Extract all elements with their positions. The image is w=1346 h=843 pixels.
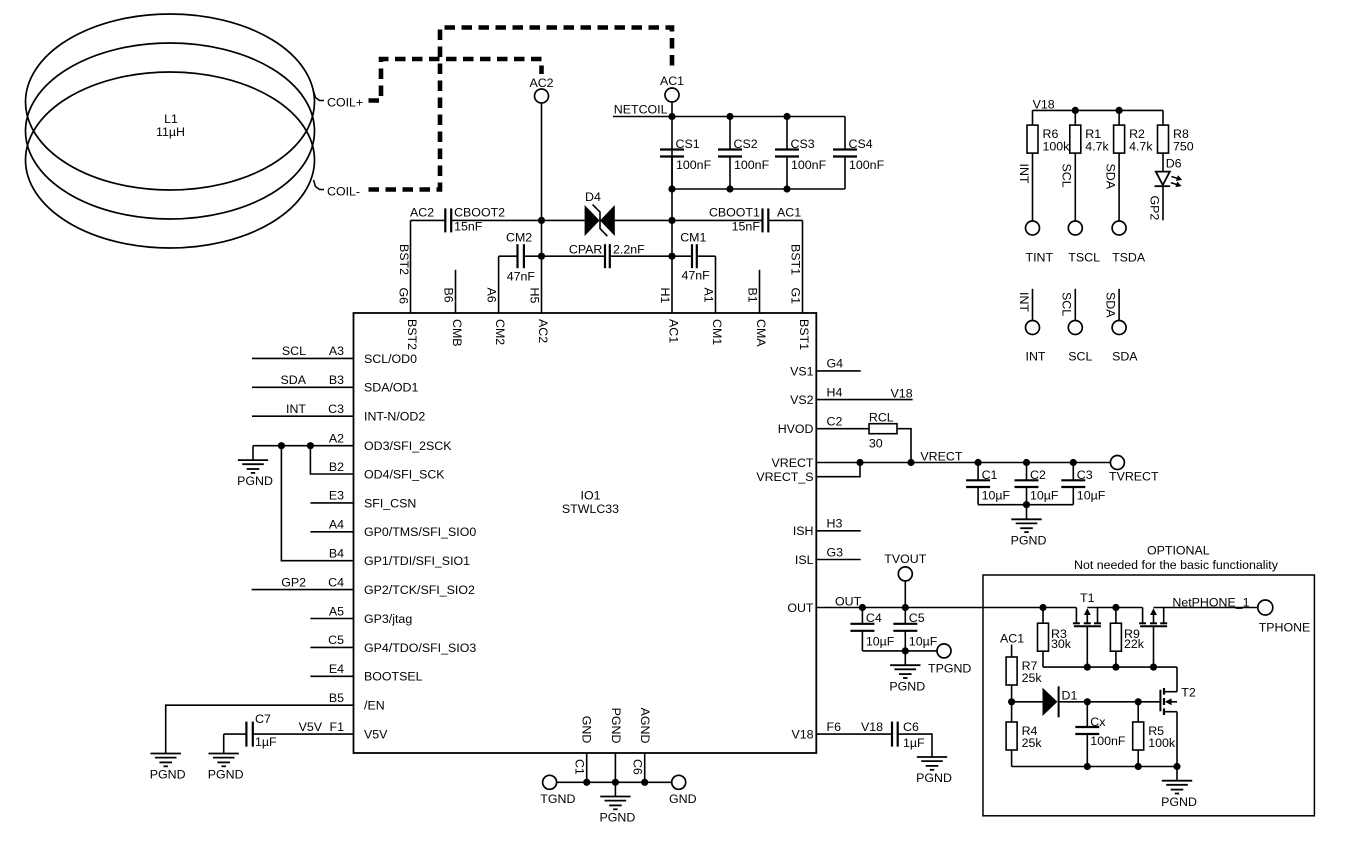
- svg-text:A3: A3: [329, 344, 344, 358]
- svg-text:A6: A6: [485, 288, 499, 303]
- svg-text:PGND: PGND: [916, 771, 952, 785]
- svg-text:PGND: PGND: [237, 474, 273, 488]
- resistor R1: [1060, 110, 1110, 221]
- wire C4-C5 rail to TPGND: [862, 647, 937, 654]
- svg-text:30: 30: [869, 436, 883, 450]
- svg-text:INT: INT: [1026, 350, 1046, 364]
- capacitor CBOOT1: [668, 205, 802, 233]
- svg-text:100nF: 100nF: [734, 158, 770, 172]
- svg-text:GND: GND: [580, 716, 594, 744]
- svg-text:SCL: SCL: [1060, 164, 1074, 188]
- test point SDA (lower group): [1103, 289, 1138, 364]
- pin A4 GP0/TMS/SFI_SIO0: [310, 518, 476, 540]
- test point TINT: [1026, 221, 1054, 264]
- test point AC2: [525, 74, 558, 103]
- test point TVRECT: [1109, 456, 1159, 484]
- svg-text:INT: INT: [1017, 164, 1031, 184]
- svg-text:TSCL: TSCL: [1068, 250, 1100, 264]
- svg-text:C6: C6: [903, 720, 919, 734]
- svg-text:BST1: BST1: [789, 244, 803, 275]
- svg-text:C5: C5: [909, 611, 925, 625]
- svg-text:100nF: 100nF: [791, 158, 827, 172]
- svg-text:C7: C7: [255, 712, 271, 726]
- svg-text:GP4/TDO/SFI_SIO3: GP4/TDO/SFI_SIO3: [364, 641, 476, 655]
- svg-text:V18: V18: [791, 728, 813, 742]
- resistor R3: [1038, 604, 1072, 667]
- pin BST1 stub: [789, 220, 803, 313]
- svg-text:NetPHONE_1: NetPHONE_1: [1172, 595, 1249, 609]
- resistor RCL: [778, 411, 915, 467]
- svg-text:OUT: OUT: [835, 594, 862, 608]
- svg-text:4.7k: 4.7k: [1129, 139, 1153, 153]
- svg-text:V18: V18: [891, 386, 913, 400]
- wire COIL- to AC1 (dashed): [369, 28, 673, 190]
- svg-text:AC1: AC1: [667, 319, 681, 343]
- pin VRECT: [772, 450, 1111, 470]
- pin A2 OD3/SFI_2SCK: [253, 432, 452, 454]
- test point SCL (lower group): [1060, 289, 1093, 364]
- svg-text:HVOD: HVOD: [778, 422, 814, 436]
- svg-text:CM1: CM1: [680, 230, 706, 244]
- svg-text:H3: H3: [827, 517, 843, 531]
- net NetPHONE_1 wire: [1154, 595, 1258, 609]
- svg-text:T2: T2: [1181, 686, 1196, 700]
- optional block box: [983, 544, 1314, 816]
- svg-text:GP3/jtag: GP3/jtag: [364, 612, 412, 626]
- svg-text:CS3: CS3: [791, 137, 815, 151]
- svg-text:SDA/OD1: SDA/OD1: [364, 381, 419, 395]
- ground PGND bottom: [599, 782, 635, 824]
- svg-text:D1: D1: [1062, 689, 1078, 703]
- pin C3 INT-N/OD2: [252, 402, 425, 424]
- pin GND (C1): [573, 716, 594, 786]
- capacitor CS4: [833, 117, 885, 190]
- pin C4 GP2/TCK/SFI_SIO2: [252, 575, 475, 597]
- pin E3 SFI_CSN: [310, 489, 416, 511]
- svg-text:1µF: 1µF: [255, 735, 277, 749]
- svg-text:TSDA: TSDA: [1112, 250, 1146, 264]
- LED D6: [1147, 157, 1182, 221]
- svg-text:A1: A1: [702, 288, 716, 303]
- svg-text:PGND: PGND: [1011, 533, 1047, 547]
- pin B2 OD4/SFI_SCK: [329, 460, 445, 482]
- svg-text:Not needed for the basic funct: Not needed for the basic functionality: [1074, 558, 1279, 572]
- svg-text:BST2: BST2: [397, 244, 411, 275]
- svg-text:AC2: AC2: [410, 205, 434, 219]
- wire B4 tie to A2 net: [278, 442, 354, 561]
- pin CMA stub: [746, 270, 760, 313]
- svg-text:H1: H1: [658, 288, 672, 304]
- capacitor CS1: [660, 137, 712, 189]
- op-amp IC IO1 STWLC33 body: [354, 313, 817, 753]
- svg-text:OPTIONAL: OPTIONAL: [1147, 544, 1210, 558]
- svg-text:SDA: SDA: [1103, 292, 1117, 318]
- svg-text:100nF: 100nF: [849, 158, 885, 172]
- svg-text:100k: 100k: [1043, 139, 1071, 153]
- svg-text:CM2: CM2: [506, 230, 532, 244]
- capacitor CS2: [718, 117, 770, 190]
- capacitor CBOOT2: [410, 205, 545, 233]
- svg-text:AC2: AC2: [529, 76, 553, 90]
- pin F1 V5V: [330, 720, 389, 742]
- wire COIL+ to AC2 (dashed): [369, 59, 542, 101]
- svg-text:CPAR: CPAR: [569, 242, 603, 256]
- svg-text:D6: D6: [1166, 157, 1182, 171]
- svg-text:OUT: OUT: [787, 601, 814, 615]
- wire bottom rail: [557, 781, 672, 783]
- pin VRECT_S: [756, 459, 863, 484]
- resistor R8: [1158, 110, 1194, 171]
- pin H3 ISH: [793, 517, 861, 539]
- wire C1-C3 bottom rail: [978, 501, 1073, 508]
- svg-text:E3: E3: [329, 489, 344, 503]
- test point TPHONE: [1258, 600, 1311, 635]
- svg-text:CM1: CM1: [710, 319, 724, 345]
- svg-text:OD4/SFI_SCK: OD4/SFI_SCK: [364, 467, 445, 481]
- ground PGND at C5: [889, 651, 925, 693]
- svg-text:ISH: ISH: [793, 524, 814, 538]
- TVS diode D4: [542, 190, 673, 236]
- pin B5 /EN: [329, 691, 385, 713]
- svg-text:A2: A2: [329, 432, 344, 446]
- svg-text:IO1: IO1: [581, 489, 601, 503]
- svg-text:G6: G6: [397, 288, 411, 305]
- svg-text:INT-N/OD2: INT-N/OD2: [364, 410, 425, 424]
- pin CMB stub: [442, 270, 456, 313]
- ground PGND at A2: [237, 446, 273, 489]
- pin A3 SCL/OD0: [252, 344, 417, 366]
- capacitor C1: [966, 459, 1010, 505]
- svg-text:H5: H5: [528, 288, 542, 304]
- svg-text:VRECT_S: VRECT_S: [756, 470, 813, 484]
- svg-text:GND: GND: [669, 792, 697, 806]
- svg-text:COIL+: COIL+: [327, 96, 363, 110]
- wire B2 tie to A2 net: [307, 442, 354, 474]
- svg-text:AC1: AC1: [777, 205, 801, 219]
- svg-text:AGND: AGND: [638, 708, 652, 744]
- ground PGND at C1-C3: [1011, 505, 1047, 548]
- svg-text:22k: 22k: [1124, 637, 1145, 651]
- test point TSDA: [1112, 221, 1146, 264]
- net AC1 stub: [1000, 632, 1024, 658]
- svg-text:CM2: CM2: [493, 319, 507, 345]
- resistor R2: [1103, 110, 1153, 221]
- inductor L1 (Rx coil): [26, 14, 315, 248]
- svg-text:GP0/TMS/SFI_SIO0: GP0/TMS/SFI_SIO0: [364, 525, 476, 539]
- svg-text:100nF: 100nF: [676, 158, 712, 172]
- svg-text:F6: F6: [827, 720, 842, 734]
- svg-text:BST1: BST1: [797, 319, 811, 350]
- svg-text:10µF: 10µF: [866, 635, 895, 649]
- svg-text:INT: INT: [1017, 292, 1031, 312]
- transistor T1 (left FET): [1073, 591, 1101, 667]
- test point TGND: [540, 775, 575, 806]
- svg-text:BOOTSEL: BOOTSEL: [364, 670, 423, 684]
- svg-text:GP2: GP2: [1147, 196, 1161, 221]
- svg-text:G3: G3: [827, 545, 844, 559]
- test point GND: [669, 775, 697, 806]
- svg-text:ISL: ISL: [795, 553, 814, 567]
- svg-text:25k: 25k: [1022, 671, 1043, 685]
- svg-text:CS2: CS2: [734, 137, 758, 151]
- svg-text:SDA: SDA: [1112, 350, 1138, 364]
- svg-text:SDA: SDA: [281, 373, 307, 387]
- svg-text:V18: V18: [861, 720, 883, 734]
- capacitor C3: [1061, 459, 1105, 505]
- wire AC1 vertical: [671, 102, 673, 313]
- svg-text:VS2: VS2: [790, 393, 814, 407]
- wire AC2 vertical: [541, 103, 543, 313]
- svg-text:V5V: V5V: [364, 728, 388, 742]
- svg-text:SFI_CSN: SFI_CSN: [364, 496, 416, 510]
- svg-text:H4: H4: [827, 385, 843, 399]
- svg-text:GP1/TDI/SFI_SIO1: GP1/TDI/SFI_SIO1: [364, 554, 470, 568]
- svg-text:C2: C2: [827, 415, 843, 429]
- capacitor C2: [1015, 459, 1059, 505]
- svg-text:NETCOIL: NETCOIL: [614, 102, 668, 116]
- svg-text:B3: B3: [329, 373, 344, 387]
- test point TSCL: [1068, 221, 1100, 264]
- svg-text:11µH: 11µH: [156, 125, 185, 139]
- pin BST2 stub: [397, 220, 412, 313]
- svg-text:PGND: PGND: [208, 768, 244, 782]
- svg-text:L1: L1: [164, 112, 178, 126]
- node COIL- hook and label: [314, 180, 361, 199]
- svg-text:E4: E4: [329, 662, 344, 676]
- node COIL+ hook and label: [314, 91, 364, 110]
- diode D1: [1008, 686, 1160, 717]
- svg-text:CS4: CS4: [849, 137, 873, 151]
- svg-text:PGND: PGND: [609, 708, 623, 744]
- net V18 rail: [1033, 98, 1164, 114]
- wire /EN to ground: [166, 705, 354, 753]
- svg-text:B5: B5: [329, 691, 344, 705]
- capacitor C7: [224, 712, 354, 749]
- wire CS bottom rail: [668, 185, 845, 192]
- svg-text:C4: C4: [866, 611, 882, 625]
- svg-text:SCL: SCL: [1068, 350, 1092, 364]
- svg-text:47nF: 47nF: [682, 268, 711, 282]
- ground PGND at C7: [208, 734, 244, 782]
- svg-text:TINT: TINT: [1026, 250, 1054, 264]
- svg-text:A5: A5: [329, 604, 344, 618]
- svg-text:D4: D4: [585, 190, 601, 204]
- svg-text:TGND: TGND: [540, 792, 575, 806]
- test point TVOUT: [884, 552, 926, 608]
- svg-text:C5: C5: [328, 633, 344, 647]
- svg-text:CBOOT1: CBOOT1: [709, 205, 760, 219]
- pin OUT: [787, 594, 1076, 615]
- svg-text:4.7k: 4.7k: [1085, 139, 1109, 153]
- test point TPGND: [928, 644, 971, 676]
- svg-text:Cx: Cx: [1090, 715, 1106, 729]
- pin B4 GP1/TDI/SFI_SIO1: [329, 547, 470, 569]
- svg-text:2.2nF: 2.2nF: [613, 242, 645, 256]
- capacitor CM2: [485, 230, 546, 313]
- svg-text:CBOOT2: CBOOT2: [454, 205, 505, 219]
- pin B3 SDA/OD1: [252, 373, 419, 395]
- capacitor C4: [850, 608, 894, 651]
- wire OUT segment in box: [1087, 607, 1142, 609]
- pin C5 GP4/TDO/SFI_SIO3: [310, 633, 476, 655]
- svg-text:AC2: AC2: [536, 319, 550, 343]
- svg-text:100nF: 100nF: [1090, 734, 1126, 748]
- svg-text:B4: B4: [329, 547, 344, 561]
- svg-text:SDA: SDA: [1103, 164, 1117, 190]
- svg-text:PGND: PGND: [889, 679, 925, 693]
- pin H4 VS2 net V18: [790, 385, 913, 407]
- svg-text:TPGND: TPGND: [928, 662, 971, 676]
- svg-text:SCL/OD0: SCL/OD0: [364, 352, 417, 366]
- pin PGND bottom: [609, 708, 623, 786]
- svg-text:100k: 100k: [1148, 736, 1176, 750]
- svg-text:CS1: CS1: [676, 137, 700, 151]
- svg-text:AC1: AC1: [660, 74, 684, 88]
- svg-text:F1: F1: [330, 720, 345, 734]
- svg-text:GP2/TCK/SFI_SIO2: GP2/TCK/SFI_SIO2: [364, 583, 475, 597]
- svg-text:TVRECT: TVRECT: [1109, 469, 1159, 483]
- wire gate rail: [1043, 664, 1177, 671]
- svg-text:AC1: AC1: [1000, 632, 1024, 646]
- svg-text:10µF: 10µF: [1030, 489, 1059, 503]
- IC top pin names: [405, 319, 811, 350]
- svg-text:10µF: 10µF: [982, 489, 1011, 503]
- test point AC1: [656, 72, 689, 102]
- svg-text:PGND: PGND: [599, 811, 635, 825]
- resistor R4: [1006, 702, 1042, 767]
- capacitor CPAR: [542, 242, 676, 268]
- svg-text:C1: C1: [573, 759, 587, 775]
- svg-text:BST2: BST2: [405, 319, 419, 350]
- svg-text:COIL-: COIL-: [327, 185, 360, 199]
- svg-text:30k: 30k: [1051, 637, 1072, 651]
- svg-text:TVOUT: TVOUT: [884, 552, 926, 566]
- svg-text:SCL: SCL: [1060, 292, 1074, 316]
- svg-text:C3: C3: [1077, 468, 1093, 482]
- svg-text:/EN: /EN: [364, 699, 385, 713]
- ground PGND at C6: [916, 757, 952, 785]
- svg-text:VRECT: VRECT: [772, 456, 814, 470]
- svg-text:VS1: VS1: [790, 364, 814, 378]
- pin H1 number: [658, 288, 672, 304]
- capacitor Cx: [1075, 702, 1126, 767]
- svg-text:750: 750: [1173, 139, 1194, 153]
- ground PGND at /EN: [150, 754, 186, 782]
- svg-text:CMB: CMB: [450, 319, 464, 347]
- ground PGND optional: [1161, 767, 1197, 809]
- capacitor CM1: [672, 230, 716, 313]
- svg-text:RCL: RCL: [869, 411, 894, 425]
- svg-text:C6: C6: [631, 759, 645, 775]
- resistor R5: [1133, 702, 1176, 767]
- svg-text:A4: A4: [329, 518, 344, 532]
- svg-text:1µF: 1µF: [903, 736, 925, 750]
- svg-text:25k: 25k: [1022, 736, 1043, 750]
- svg-text:B1: B1: [746, 288, 760, 303]
- transistor T2: [1160, 667, 1195, 766]
- svg-text:C3: C3: [328, 402, 344, 416]
- svg-text:B6: B6: [442, 288, 456, 303]
- svg-text:PGND: PGND: [150, 768, 186, 782]
- pin E4 BOOTSEL: [310, 662, 422, 684]
- svg-text:G1: G1: [789, 288, 803, 305]
- svg-text:CMA: CMA: [754, 319, 768, 347]
- net NETCOIL: [613, 102, 845, 120]
- pin H5 number: [528, 288, 542, 304]
- resistor R9: [1110, 604, 1144, 667]
- pin G4 VS1: [790, 357, 861, 379]
- wire optional bottom rail: [1012, 763, 1181, 770]
- svg-text:SCL: SCL: [282, 344, 306, 358]
- svg-text:OD3/SFI_2SCK: OD3/SFI_2SCK: [364, 439, 452, 453]
- svg-text:T1: T1: [1080, 591, 1095, 605]
- svg-text:C4: C4: [328, 575, 344, 589]
- svg-text:STWLC33: STWLC33: [562, 502, 619, 516]
- svg-text:15nF: 15nF: [454, 220, 483, 234]
- pin F6 V18: [791, 720, 892, 742]
- capacitor C6: [892, 720, 932, 757]
- svg-text:10µF: 10µF: [1077, 489, 1106, 503]
- svg-text:PGND: PGND: [1161, 795, 1197, 809]
- pin AGND (C6): [631, 708, 652, 786]
- transistor T1 (right FET): [1139, 608, 1167, 668]
- svg-text:INT: INT: [286, 402, 306, 416]
- capacitor C5: [893, 608, 937, 651]
- pin A5 GP3/jtag: [310, 604, 412, 626]
- svg-text:GP2: GP2: [281, 575, 306, 589]
- svg-text:V5V: V5V: [299, 720, 323, 734]
- svg-text:B2: B2: [329, 460, 344, 474]
- resistor R6: [1017, 110, 1070, 221]
- svg-text:C1: C1: [982, 468, 998, 482]
- svg-text:V18: V18: [1033, 98, 1055, 112]
- svg-text:TPHONE: TPHONE: [1259, 621, 1311, 635]
- svg-text:C2: C2: [1030, 468, 1046, 482]
- svg-text:47nF: 47nF: [507, 269, 536, 283]
- svg-text:15nF: 15nF: [732, 220, 761, 234]
- resistor R7: [1006, 657, 1042, 702]
- svg-text:VRECT: VRECT: [920, 450, 962, 464]
- pin G3 ISL: [795, 545, 861, 567]
- capacitor CS3: [775, 117, 827, 190]
- svg-text:G4: G4: [827, 357, 844, 371]
- svg-text:10µF: 10µF: [909, 635, 938, 649]
- test point INT (lower group): [1017, 289, 1046, 364]
